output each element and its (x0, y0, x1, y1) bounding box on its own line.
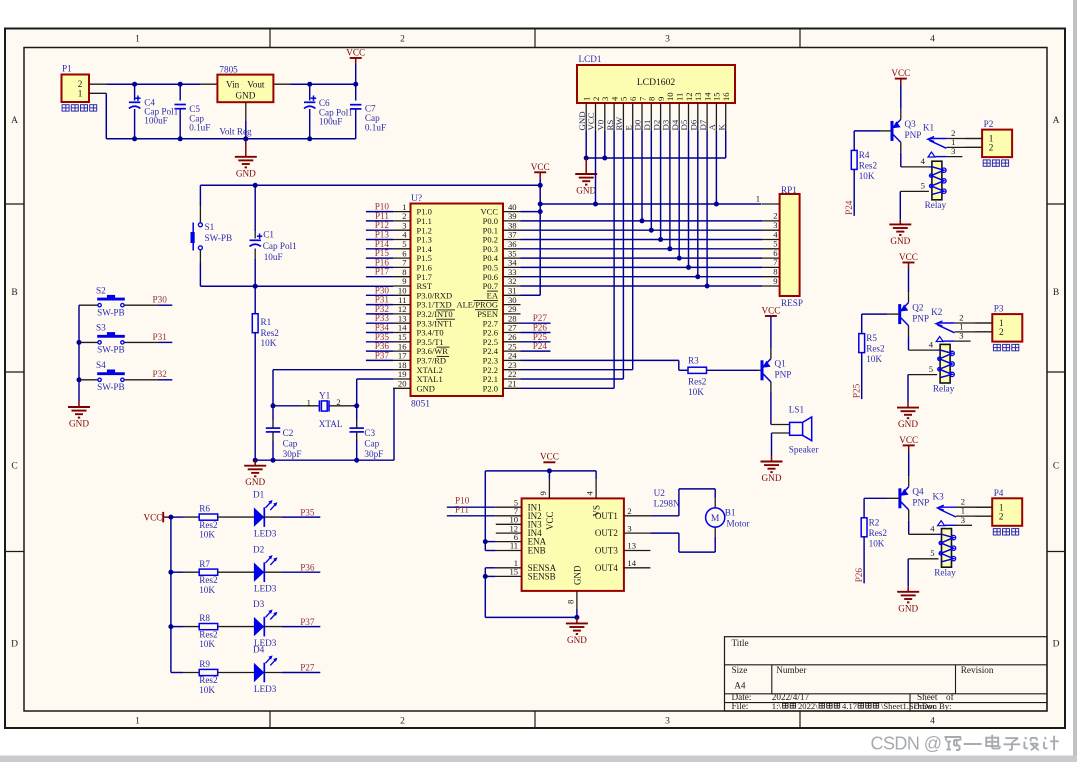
svg-text:14: 14 (627, 558, 636, 568)
svg-text:C: C (11, 461, 17, 471)
svg-text:D1: D1 (253, 489, 265, 499)
svg-text:0.1uF: 0.1uF (189, 123, 210, 133)
svg-text:P26: P26 (854, 568, 864, 583)
svg-text:3: 3 (627, 523, 631, 533)
svg-text:PNP: PNP (775, 370, 792, 380)
svg-text:20: 20 (398, 379, 407, 389)
svg-text:2: 2 (627, 506, 631, 516)
svg-text:13: 13 (627, 541, 636, 551)
svg-text:PNP: PNP (912, 313, 929, 323)
svg-text:VCC: VCC (891, 68, 910, 78)
svg-text:10K: 10K (261, 338, 277, 348)
svg-text:2022\: 2022\ (798, 701, 818, 711)
svg-text:RP1: RP1 (781, 185, 797, 195)
svg-text:GND: GND (890, 236, 910, 246)
svg-text:4: 4 (930, 717, 935, 727)
svg-text:A: A (1053, 116, 1060, 126)
svg-text:Y1: Y1 (319, 391, 331, 401)
svg-text:10K: 10K (199, 685, 215, 695)
svg-text:P4: P4 (994, 488, 1004, 498)
svg-text:Volt Reg: Volt Reg (219, 127, 252, 137)
svg-text:ENB: ENB (528, 546, 546, 556)
svg-text:GND: GND (567, 635, 587, 645)
svg-text:U?: U? (411, 194, 422, 204)
svg-text:R1: R1 (261, 317, 272, 327)
svg-text:1: 1 (307, 397, 311, 407)
svg-text:Res2: Res2 (199, 575, 218, 585)
svg-text:VCC: VCC (540, 451, 559, 461)
svg-text:D2: D2 (253, 544, 265, 554)
svg-text:GND: GND (236, 168, 256, 178)
svg-text:Res2: Res2 (199, 675, 218, 685)
svg-text:R2: R2 (869, 517, 880, 527)
svg-text:5: 5 (930, 548, 934, 558)
svg-text:K2: K2 (931, 307, 943, 317)
svg-text:4.17: 4.17 (842, 701, 858, 711)
svg-text:SW-PB: SW-PB (97, 308, 125, 318)
svg-text:K: K (716, 124, 726, 131)
svg-text:P32: P32 (153, 369, 168, 379)
svg-text:U2: U2 (654, 488, 666, 498)
svg-text:XTAL: XTAL (319, 419, 343, 429)
svg-text:P35: P35 (300, 507, 315, 517)
svg-text:3: 3 (951, 146, 955, 156)
svg-text:Relay: Relay (933, 383, 955, 393)
svg-text:Res2: Res2 (859, 160, 878, 170)
svg-text:GND: GND (235, 91, 255, 101)
svg-text:10K: 10K (688, 387, 704, 397)
svg-text:Res2: Res2 (261, 328, 280, 338)
svg-text:LED3: LED3 (254, 584, 277, 594)
svg-text:1: 1 (756, 194, 760, 204)
svg-text:GND: GND (572, 565, 582, 585)
svg-text:Q2: Q2 (912, 302, 924, 312)
svg-text:Cap: Cap (364, 438, 379, 448)
svg-text:Res2: Res2 (688, 376, 707, 386)
svg-text:LS1: LS1 (789, 405, 805, 415)
svg-text:Motor: Motor (727, 519, 750, 529)
svg-text:2: 2 (999, 327, 1004, 337)
svg-text:VCC: VCC (761, 306, 780, 316)
svg-text:2: 2 (400, 35, 405, 45)
svg-text:Vin: Vin (226, 80, 240, 90)
svg-text:1:\: 1:\ (772, 701, 782, 711)
svg-text:Relay: Relay (934, 568, 956, 578)
svg-text:S1: S1 (205, 222, 215, 232)
svg-text:100uF: 100uF (144, 116, 168, 126)
svg-text:GND: GND (245, 477, 265, 487)
svg-text:30pF: 30pF (283, 449, 302, 459)
svg-text:VCC: VCC (899, 435, 918, 445)
svg-text:P3: P3 (994, 304, 1004, 314)
svg-text:S2: S2 (96, 285, 106, 295)
svg-text:D: D (11, 639, 18, 649)
svg-text:Relay: Relay (925, 200, 947, 210)
svg-text:4: 4 (930, 524, 935, 534)
svg-text:Vout: Vout (247, 80, 265, 90)
svg-text:10K: 10K (199, 530, 215, 540)
svg-text:10K: 10K (199, 639, 215, 649)
svg-text:0.1uF: 0.1uF (365, 122, 386, 132)
svg-text:SW-PB: SW-PB (97, 382, 125, 392)
svg-text:4: 4 (585, 491, 595, 496)
svg-text:B: B (1053, 288, 1059, 298)
svg-text:OUT4: OUT4 (595, 563, 618, 573)
svg-text:2: 2 (999, 511, 1004, 521)
svg-text:11: 11 (510, 541, 518, 551)
svg-text:P36: P36 (300, 562, 315, 572)
svg-text:2: 2 (989, 143, 994, 153)
svg-text:Cap: Cap (283, 438, 298, 448)
svg-text:2: 2 (336, 397, 340, 407)
svg-text:4: 4 (921, 156, 926, 166)
svg-text:SENSB: SENSB (528, 572, 556, 582)
svg-text:R9: R9 (199, 659, 210, 669)
svg-text:9: 9 (773, 276, 777, 286)
svg-text:1: 1 (135, 35, 140, 45)
svg-text:3: 3 (665, 717, 670, 727)
svg-text:9: 9 (538, 491, 548, 495)
svg-text:VCC: VCC (346, 48, 365, 58)
svg-text:7805: 7805 (219, 65, 238, 75)
svg-text:Number: Number (776, 665, 806, 675)
svg-text:C2: C2 (283, 428, 294, 438)
svg-text:K3: K3 (933, 491, 945, 501)
svg-text:8051: 8051 (411, 400, 430, 410)
svg-text:R6: R6 (199, 504, 210, 514)
svg-text:GND: GND (576, 186, 596, 196)
svg-text:4: 4 (930, 35, 935, 45)
svg-text:P2.0: P2.0 (483, 383, 498, 393)
svg-text:16: 16 (721, 92, 731, 101)
svg-text:3: 3 (961, 515, 965, 525)
svg-text:S4: S4 (96, 360, 106, 370)
svg-text:SW-PB: SW-PB (97, 345, 125, 355)
svg-text:P30: P30 (153, 295, 168, 305)
svg-text:Drawn By:: Drawn By: (914, 701, 952, 711)
svg-text:D: D (1053, 639, 1060, 649)
svg-text:File:: File: (732, 701, 749, 711)
svg-text:VCC: VCC (531, 162, 550, 172)
svg-text:15: 15 (510, 567, 519, 577)
svg-text:P2: P2 (984, 119, 994, 129)
svg-text:1: 1 (135, 717, 140, 727)
svg-text:P37: P37 (375, 350, 390, 360)
svg-text:Res2: Res2 (866, 344, 885, 354)
svg-text:RESP: RESP (781, 298, 803, 308)
svg-text:10K: 10K (866, 354, 882, 364)
svg-text:P31: P31 (153, 332, 168, 342)
svg-text:Q1: Q1 (775, 359, 787, 369)
svg-text:R4: R4 (859, 150, 870, 160)
svg-text:D3: D3 (253, 599, 265, 609)
svg-text:Res2: Res2 (869, 528, 888, 538)
svg-text:21: 21 (508, 379, 517, 389)
svg-text:100uF: 100uF (319, 116, 343, 126)
svg-text:10uF: 10uF (264, 252, 283, 262)
svg-text:Title: Title (732, 638, 749, 648)
svg-text:Res2: Res2 (199, 520, 218, 530)
svg-text:B1: B1 (725, 508, 736, 518)
svg-text:VCC: VCC (545, 511, 555, 530)
svg-text:R5: R5 (866, 333, 877, 343)
svg-text:CSDN @: CSDN @ (871, 734, 942, 754)
svg-text:B: B (11, 288, 17, 298)
svg-text:Cap Pol1: Cap Pol1 (263, 241, 297, 251)
svg-text:4: 4 (929, 339, 934, 349)
svg-text:LED3: LED3 (254, 684, 277, 694)
svg-text:R8: R8 (199, 613, 210, 623)
svg-text:R7: R7 (199, 559, 210, 569)
svg-text:VCC: VCC (144, 513, 163, 523)
svg-text:10K: 10K (859, 171, 875, 181)
svg-text:8: 8 (565, 600, 575, 604)
svg-text:LCD1: LCD1 (579, 54, 602, 64)
svg-text:P37: P37 (300, 617, 315, 627)
svg-text:Size: Size (732, 665, 748, 675)
svg-text:OUT2: OUT2 (595, 528, 618, 538)
svg-text:3: 3 (665, 35, 670, 45)
svg-text:2: 2 (400, 717, 405, 727)
svg-text:P17: P17 (375, 267, 390, 277)
svg-text:OUT3: OUT3 (595, 546, 618, 556)
svg-text:GND: GND (69, 419, 89, 429)
svg-text:10K: 10K (199, 585, 215, 595)
svg-text:PNP: PNP (912, 498, 929, 508)
svg-text:P11: P11 (455, 505, 469, 515)
svg-text:1: 1 (78, 89, 83, 99)
svg-text:A4: A4 (734, 681, 746, 691)
svg-text:5: 5 (929, 364, 933, 374)
svg-text:LED3: LED3 (254, 528, 277, 538)
svg-text:K1: K1 (923, 123, 935, 133)
svg-text:C: C (1053, 461, 1059, 471)
svg-text:Q3: Q3 (905, 119, 917, 129)
svg-text:C3: C3 (364, 428, 375, 438)
svg-text:VCC: VCC (899, 252, 918, 262)
svg-text:2: 2 (78, 79, 83, 89)
svg-text:P25: P25 (852, 383, 862, 398)
svg-text:A: A (11, 116, 18, 126)
svg-text:P1: P1 (62, 64, 72, 74)
svg-text:R3: R3 (688, 356, 699, 366)
svg-text:M: M (711, 513, 720, 524)
svg-text:PNP: PNP (905, 130, 922, 140)
svg-text:GND: GND (762, 473, 782, 483)
svg-text:10K: 10K (869, 538, 885, 548)
svg-text:Q4: Q4 (912, 487, 924, 497)
svg-text:Speaker: Speaker (789, 445, 819, 455)
svg-text:Revision: Revision (961, 665, 994, 675)
svg-text:LCD1602: LCD1602 (637, 77, 676, 88)
svg-text:GND: GND (898, 603, 918, 613)
svg-text:P24: P24 (844, 200, 854, 215)
svg-text:C1: C1 (263, 229, 274, 239)
svg-text:P27: P27 (300, 663, 315, 673)
svg-text:SW-PB: SW-PB (205, 233, 233, 243)
svg-text:P24: P24 (533, 341, 548, 351)
svg-text:VS: VS (592, 505, 602, 517)
svg-text:GND: GND (898, 419, 918, 429)
svg-text:3: 3 (959, 331, 963, 341)
svg-text:D4: D4 (253, 645, 265, 655)
svg-text:30pF: 30pF (364, 449, 383, 459)
svg-text:GND: GND (417, 383, 435, 393)
svg-text:Res2: Res2 (199, 629, 218, 639)
svg-text:C7: C7 (365, 103, 376, 113)
svg-text:S3: S3 (96, 323, 106, 333)
svg-text:5: 5 (921, 181, 925, 191)
svg-text:L298N: L298N (654, 499, 680, 509)
